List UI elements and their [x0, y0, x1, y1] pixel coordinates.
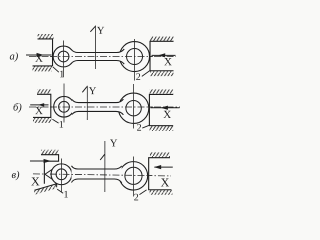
- centerline over eyes row b: [50, 106, 153, 108]
- left support bracket: [33, 94, 51, 117]
- eye 1 vertical centerline: [63, 40, 65, 77]
- centerline row v: [33, 174, 171, 176]
- svg-text:Y: Y: [97, 26, 105, 37]
- eye 2 inner: [126, 101, 141, 116]
- svg-text:в): в): [11, 170, 20, 181]
- svg-text:1: 1: [59, 120, 64, 131]
- right support hatch bottom: [149, 190, 172, 195]
- svg-text:X: X: [164, 56, 172, 68]
- eye 1 outer: [54, 96, 75, 117]
- node 1 leader: [57, 189, 63, 193]
- eye 1 inner: [56, 169, 67, 180]
- svg-text:2: 2: [136, 72, 141, 83]
- left support hatch top: [37, 89, 51, 94]
- left support bottom slanted: [34, 184, 57, 195]
- left support bracket: [41, 155, 59, 184]
- force arrow left: [26, 54, 51, 56]
- svg-text:X: X: [163, 109, 171, 121]
- eye 2 vertical centerline: [132, 157, 134, 197]
- svg-text:а): а): [10, 51, 19, 62]
- eye 1 vertical centerline: [60, 158, 62, 192]
- eye 1 vertical centerline: [63, 83, 65, 122]
- eye 2 outer: [118, 93, 148, 123]
- force arrow right: [154, 166, 172, 168]
- svg-text:2: 2: [137, 123, 142, 134]
- svg-text:б): б): [13, 102, 22, 113]
- Y axis row a: [95, 25, 97, 68]
- node 2 leader: [139, 190, 146, 195]
- force arrow right: [152, 54, 176, 56]
- force arrow left (points left): [30, 104, 48, 106]
- node 2 leader: [142, 71, 150, 77]
- svg-text:X: X: [161, 175, 170, 189]
- eye 1 outer: [53, 46, 74, 67]
- right support bracket: [150, 41, 174, 70]
- right support hatch bottom: [150, 71, 174, 76]
- eye 1 inner: [58, 51, 69, 62]
- bar: [71, 49, 124, 64]
- right support hatch top: [150, 152, 170, 157]
- right support hatch top: [149, 89, 173, 94]
- node 1 leader: [52, 119, 58, 123]
- node 2 leader: [142, 125, 149, 128]
- node 1 leader: [53, 67, 59, 72]
- centerline over eyes row a: [50, 55, 153, 57]
- svg-text:Y: Y: [89, 86, 97, 97]
- right support bracket: [149, 94, 173, 125]
- right support hatch top: [150, 36, 174, 41]
- svg-text:Y: Y: [110, 138, 118, 149]
- force arrow right: [150, 107, 179, 109]
- svg-text:X: X: [35, 53, 43, 65]
- centerline over eyes row v: [50, 174, 152, 176]
- left support hatch bottom: [33, 118, 52, 123]
- Y axis row v: [104, 141, 106, 192]
- eye 2 outer: [119, 162, 147, 190]
- pointed tip of eye 1: [45, 167, 55, 181]
- eye 1 outer: [51, 164, 72, 185]
- bar: [71, 166, 121, 183]
- eye 2 inner: [127, 49, 143, 65]
- right support hatch bottom: [149, 126, 173, 131]
- eye 2 vertical centerline: [133, 84, 135, 128]
- eye 2 outer: [120, 42, 150, 72]
- left support bracket: [33, 39, 53, 66]
- right support bracket: [149, 158, 172, 190]
- eye 1 inner: [59, 101, 70, 112]
- left support hatch top: [38, 34, 54, 39]
- bar: [72, 99, 123, 115]
- svg-text:1: 1: [59, 69, 64, 80]
- svg-text:X: X: [35, 105, 43, 117]
- Y axis row b: [86, 86, 88, 120]
- left support hatch top: [41, 150, 59, 155]
- svg-text:1: 1: [63, 189, 68, 200]
- centerline row b: [29, 106, 180, 108]
- eye 2 vertical centerline: [134, 39, 136, 80]
- svg-text:X: X: [31, 174, 40, 188]
- force arrow left: [30, 160, 44, 162]
- eye 2 inner: [125, 167, 142, 184]
- svg-text:2: 2: [134, 192, 139, 203]
- left support hatch bottom: [33, 66, 53, 71]
- centerline X axis row a: [29, 55, 176, 57]
